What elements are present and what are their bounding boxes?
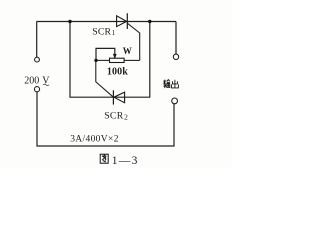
svg-text:1—3: 1—3 bbox=[112, 155, 139, 167]
svg-text:100k: 100k bbox=[107, 66, 128, 77]
svg-text:3A/400V×2: 3A/400V×2 bbox=[70, 135, 119, 145]
svg-text:W: W bbox=[123, 46, 132, 56]
svg-text:200: 200 bbox=[24, 76, 39, 87]
svg-text:SCR1: SCR1 bbox=[92, 27, 115, 38]
svg-text:SCR2: SCR2 bbox=[104, 111, 128, 122]
